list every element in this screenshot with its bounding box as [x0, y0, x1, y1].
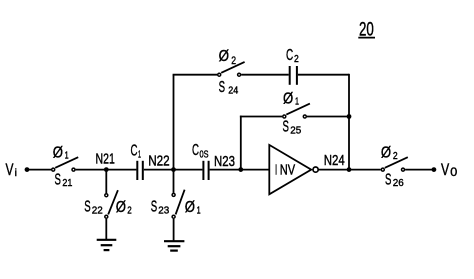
capacitor C0S: [203, 161, 208, 180]
wire S22 to ground: [105, 219, 107, 239]
svg-text:I: I: [275, 162, 277, 179]
wire Vi to S21: [27, 169, 51, 171]
svg-text:i: i: [15, 167, 17, 179]
svg-text:V: V: [441, 161, 449, 179]
label phase Ø1 of S21: [53, 144, 69, 161]
svg-text:25: 25: [290, 125, 301, 136]
svg-text:S: S: [84, 199, 90, 216]
label S21: [55, 172, 73, 189]
wire S24 to C2: [241, 74, 289, 76]
wire N22 up to feedback row: [173, 75, 175, 170]
switch S21: [52, 157, 78, 171]
label S24: [219, 79, 239, 97]
svg-text:S: S: [219, 79, 225, 96]
node N21 junction: [104, 167, 109, 172]
node Vi terminal dot: [25, 167, 30, 172]
svg-text:0S: 0S: [200, 150, 209, 161]
svg-text:1: 1: [65, 150, 69, 162]
ground G2: [164, 241, 184, 250]
wire N22 branch down: [173, 170, 175, 193]
switch S25: [283, 104, 310, 118]
label V0 output: [441, 161, 457, 179]
svg-text:1: 1: [197, 205, 201, 217]
switch S24: [218, 62, 245, 76]
label phase Ø2 of S26: [381, 145, 398, 163]
label S22: [84, 199, 103, 217]
label C1: [131, 143, 142, 161]
svg-text:Ø: Ø: [381, 145, 391, 162]
node N22 junction: [171, 167, 176, 172]
wire S26 to V0: [405, 169, 434, 171]
wire S25 to right vertical: [307, 116, 349, 118]
ground G1: [97, 240, 117, 250]
svg-text:2: 2: [393, 150, 398, 162]
label INV inside inverter: [275, 162, 295, 179]
label Vi: [6, 161, 17, 179]
wire right vertical down to N24: [348, 74, 350, 170]
wire S21 to C1: [76, 169, 137, 171]
svg-text:2: 2: [127, 205, 132, 217]
node N23 junction: [238, 167, 243, 172]
switch S23: [172, 190, 185, 219]
svg-text:1: 1: [295, 96, 299, 108]
label C2: [286, 47, 299, 65]
switch S26: [381, 157, 408, 171]
svg-text:23: 23: [158, 205, 169, 216]
node S25/C2 junction dot: [347, 114, 352, 119]
svg-text:C: C: [192, 142, 199, 159]
label phase Ø2 of S22: [116, 199, 132, 217]
svg-text:0: 0: [450, 165, 457, 179]
svg-text:24: 24: [228, 86, 238, 97]
node N24 junction: [347, 167, 352, 172]
svg-text:2: 2: [231, 55, 236, 67]
label phase Ø1 of S25: [283, 91, 299, 108]
svg-text:N23: N23: [214, 153, 235, 170]
svg-text:S: S: [385, 172, 391, 189]
label S23: [151, 199, 170, 217]
op-amp inverter U1 triangle: [269, 145, 311, 194]
svg-text:Ø: Ø: [116, 199, 126, 216]
label C0S: [192, 142, 209, 160]
inverter output bubble: [313, 167, 318, 172]
svg-text:Ø: Ø: [53, 144, 63, 161]
label S26: [385, 172, 404, 189]
wire bubble to S26: [318, 169, 380, 171]
label phase Ø1 of S23: [185, 199, 201, 217]
svg-text:22: 22: [92, 205, 103, 216]
svg-text:S: S: [283, 119, 289, 136]
svg-text:C: C: [286, 47, 293, 64]
wire C0S to INV input: [210, 169, 270, 171]
svg-text:N21: N21: [96, 151, 115, 168]
wire N23 up to S25 row: [240, 116, 242, 170]
svg-text:S: S: [151, 199, 157, 216]
wire N22 to C0S: [174, 169, 203, 171]
svg-text:N22: N22: [148, 152, 170, 169]
svg-text:Ø: Ø: [219, 48, 229, 65]
node V0 terminal dot: [432, 167, 437, 172]
svg-text:Ø: Ø: [185, 199, 195, 216]
switch S22: [105, 190, 118, 218]
svg-text:NV: NV: [280, 162, 295, 179]
svg-text:S: S: [55, 172, 61, 189]
wire C1 to N22: [144, 169, 174, 171]
wire S25 row left: [240, 116, 282, 118]
label figure number 20: [358, 18, 375, 40]
svg-text:1: 1: [138, 150, 141, 161]
svg-text:26: 26: [393, 178, 404, 189]
svg-text:Ø: Ø: [283, 91, 293, 108]
svg-text:N24: N24: [324, 152, 345, 169]
svg-text:C: C: [131, 143, 138, 160]
svg-text:21: 21: [62, 178, 72, 189]
label phase Ø2 of S24: [219, 48, 237, 67]
label S25: [283, 119, 302, 137]
wire C2 to right vertical: [298, 74, 349, 76]
svg-text:2: 2: [294, 53, 299, 65]
wire top row to S24: [173, 74, 218, 76]
wire N21 branch down: [105, 170, 107, 194]
capacitor C2: [290, 66, 297, 85]
svg-text:V: V: [6, 161, 14, 179]
wire S23 to ground: [173, 219, 175, 241]
capacitor C1: [137, 161, 143, 180]
